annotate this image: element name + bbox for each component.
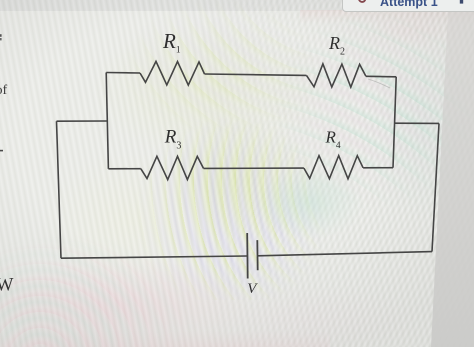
wire top-middle horizontal (205, 74, 307, 75)
wire mid-left horizontal (108, 168, 140, 170)
center moire rings (130, 85, 360, 300)
svg-text:of: of (0, 83, 8, 98)
svg-text:R3: R3 (164, 127, 182, 152)
moire washes (90, 20, 330, 160)
battery V long plate (246, 233, 249, 279)
right darker edge (430, 0, 474, 347)
upper-center faint arcs (110, 0, 340, 150)
wire mid-middle horizontal (204, 167, 304, 169)
refresh icon (359, 0, 365, 2)
svg-text:V: V (247, 281, 258, 297)
svg-text:Attempt 1: Attempt 1 (380, 0, 438, 9)
resistor R1 (140, 61, 205, 85)
wire bottom-right horizontal (258, 252, 432, 256)
cropped mark left edge top (0, 34, 2, 37)
wire inner-left vertical (106, 73, 108, 169)
reflection artifact line (368, 79, 390, 88)
wire left tap horizontal (57, 120, 108, 122)
svg-text:W: W (0, 276, 14, 296)
wire bottom-left horizontal (61, 256, 247, 258)
wire inner-right vertical (393, 77, 396, 168)
attempt bar (342, 0, 474, 12)
cropped glyph top-right (460, 0, 463, 4)
resistor R2 (307, 64, 366, 87)
right-center teal arcs (255, 5, 474, 235)
bottom-left swirl arcs (0, 215, 250, 347)
svg-text:R2: R2 (328, 33, 345, 58)
inter-branch teal wash (255, 165, 365, 240)
svg-text:R1: R1 (162, 29, 181, 56)
wire outer-left vertical (57, 121, 62, 258)
top darker band (0, 0, 474, 11)
cropped dash left edge (0, 150, 3, 152)
svg-text:R4: R4 (325, 128, 341, 152)
pink tint under top bar (300, 10, 474, 24)
wire mid-right horizontal (363, 167, 393, 169)
wire right tap horizontal (395, 122, 440, 124)
wire top-right horizontal (366, 75, 396, 78)
battery V short plate (256, 240, 258, 270)
resistor R4 (304, 156, 363, 179)
resistor R3 (141, 156, 204, 179)
wire outer-right vertical (432, 123, 439, 251)
wire top-left horizontal (106, 72, 140, 75)
